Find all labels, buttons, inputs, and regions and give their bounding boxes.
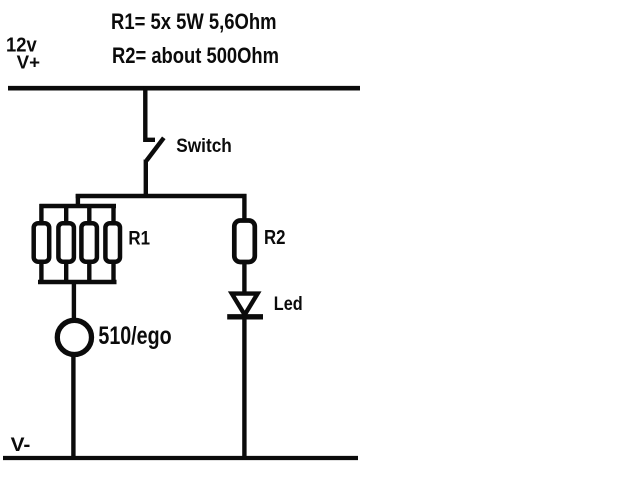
wire V- bottom rail bbox=[3, 456, 358, 460]
svg-text:V-: V- bbox=[11, 434, 31, 456]
wire bank to lamp bbox=[72, 282, 76, 321]
wire drop to R1 bank bbox=[76, 194, 80, 208]
resistor R2 bbox=[234, 221, 255, 263]
wire drop to R2 bbox=[242, 194, 246, 220]
wire R1 bank top bus bbox=[40, 204, 117, 208]
wire mid distribution line bbox=[76, 194, 247, 198]
resistor R1 body 2 bbox=[58, 223, 74, 262]
svg-text:R2: R2 bbox=[264, 227, 286, 249]
wire switch upper lead with hook bbox=[145, 86, 155, 140]
resistor R1 body 4 bbox=[105, 223, 120, 262]
wire R1 bottom leg 3 bbox=[87, 262, 91, 284]
svg-text:Switch: Switch bbox=[176, 135, 232, 157]
svg-text:R2= about 500Ohm: R2= about 500Ohm bbox=[112, 43, 279, 68]
resistor R1 body 3 bbox=[81, 223, 97, 262]
wire R2 to LED bbox=[242, 262, 246, 296]
wire R1 bottom leg 1 bbox=[39, 262, 43, 284]
wire R1 top leg 3 bbox=[87, 204, 91, 223]
led D1 cathode bar bbox=[227, 314, 263, 319]
svg-text:V+: V+ bbox=[17, 52, 40, 73]
switch S1 blade bbox=[147, 138, 164, 161]
wire R1 bottom leg 2 bbox=[64, 262, 68, 284]
wire V+ top rail bbox=[8, 86, 360, 91]
wire lamp to V- rail bbox=[71, 356, 75, 460]
wire switch lower lead bbox=[144, 160, 148, 199]
wire R1 bottom leg 4 bbox=[111, 262, 115, 284]
svg-text:R1= 5x 5W 5,6Ohm: R1= 5x 5W 5,6Ohm bbox=[111, 9, 277, 34]
resistor R1 body 1 bbox=[34, 223, 50, 262]
wire R1 top leg 1 bbox=[39, 204, 43, 223]
svg-text:Led: Led bbox=[274, 294, 303, 315]
wire LED to V- rail bbox=[242, 317, 246, 460]
lamp 510/ego bbox=[57, 320, 91, 354]
wire R1 top leg 2 bbox=[64, 204, 68, 223]
svg-text:510/ego: 510/ego bbox=[98, 322, 171, 350]
wire R1 top leg 4 bbox=[111, 204, 115, 223]
svg-text:R1: R1 bbox=[128, 228, 150, 249]
led D1 triangle bbox=[232, 294, 258, 315]
wire R1 bank bottom bus bbox=[38, 280, 117, 284]
